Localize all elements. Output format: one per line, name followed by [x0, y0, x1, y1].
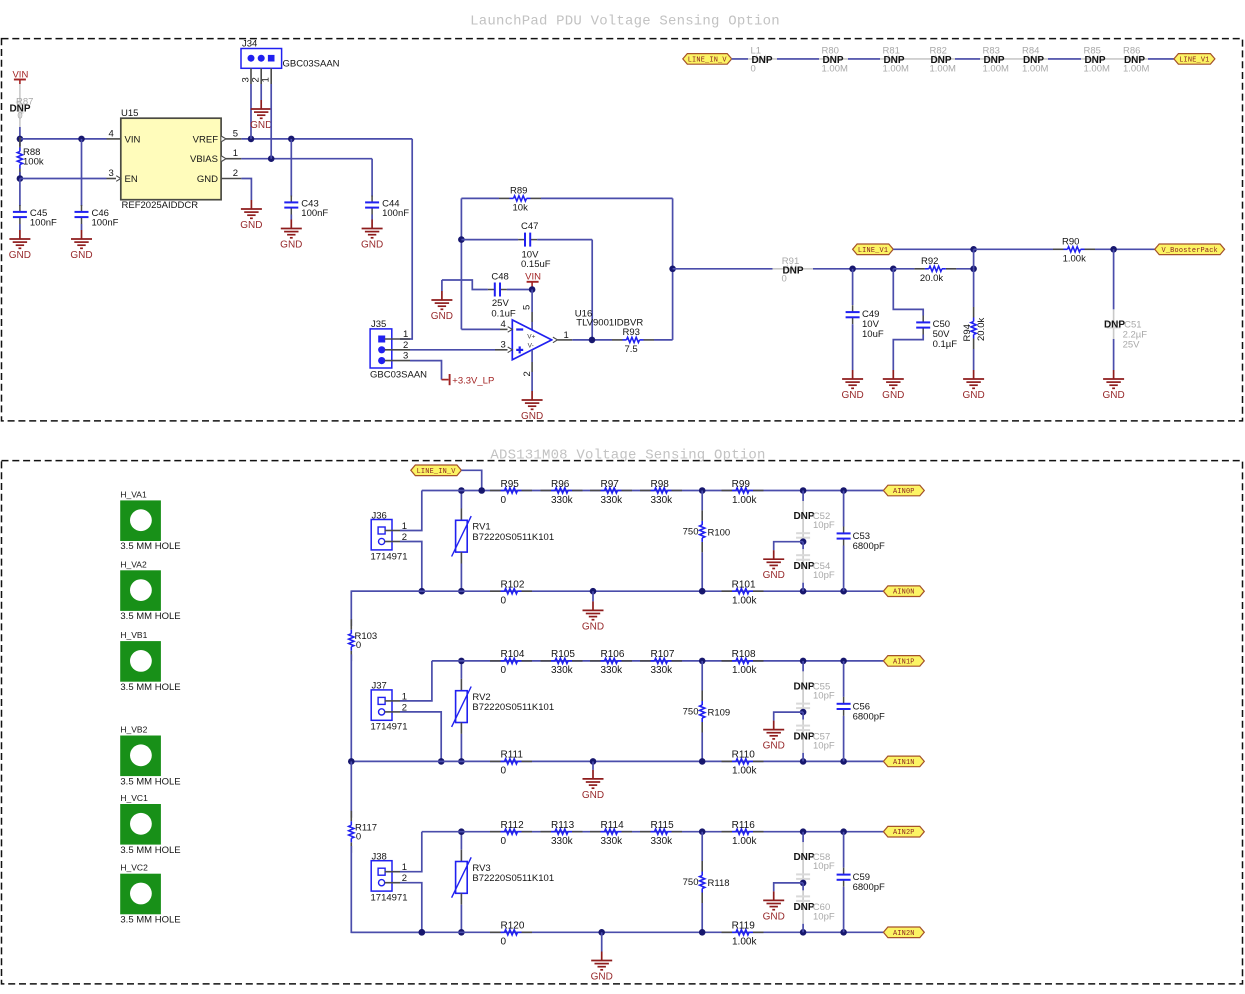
- svg-text:R112: R112: [501, 820, 525, 831]
- top section dashed border: [2, 39, 1243, 421]
- svg-text:3.5 MM HOLE: 3.5 MM HOLE: [120, 845, 180, 856]
- pin 1 (J34) wire to VBIAS: [270, 68, 272, 84]
- node C46 tap: [78, 136, 85, 143]
- svg-text:1: 1: [261, 77, 272, 82]
- capacitor C52 (DNP): [802, 491, 804, 502]
- ground (lower rail): [592, 601, 594, 610]
- wire VIN node: [19, 127, 21, 139]
- svg-text:1.00k: 1.00k: [1063, 253, 1086, 264]
- svg-text:VIN: VIN: [125, 134, 141, 145]
- svg-text:GND: GND: [763, 911, 785, 922]
- svg-text:GND: GND: [197, 174, 218, 185]
- resistor R119 1.00k (lower): [722, 931, 733, 933]
- connector J37 1714971: [371, 690, 392, 720]
- capacitor C53 6800pF: [843, 491, 845, 527]
- svg-text:1.00k: 1.00k: [732, 596, 757, 607]
- svg-text:3: 3: [403, 351, 408, 362]
- svg-text:U15: U15: [121, 108, 138, 119]
- svg-text:H_VC2: H_VC2: [120, 863, 148, 873]
- svg-text:1.00M: 1.00M: [883, 63, 909, 74]
- wire DNP chain: [732, 58, 1174, 60]
- svg-text:LINE_IN_V: LINE_IN_V: [688, 56, 728, 64]
- wire R90 to V_BoosterPack: [1095, 248, 1155, 250]
- svg-text:AIN1P: AIN1P: [893, 658, 915, 666]
- svg-text:AIN1N: AIN1N: [893, 759, 915, 767]
- svg-text:1.00k: 1.00k: [732, 836, 757, 847]
- pin 1 (J38): [385, 871, 400, 873]
- svg-text:3: 3: [109, 168, 114, 179]
- svg-text:3: 3: [501, 339, 506, 350]
- svg-text:GND: GND: [361, 240, 383, 251]
- wire gnd stub: [592, 761, 594, 770]
- svg-text:10pF: 10pF: [813, 570, 835, 581]
- svg-text:750: 750: [683, 526, 699, 537]
- node DNP cap bottom: [800, 758, 807, 765]
- node R92/R94: [970, 266, 977, 273]
- node pin2 J38 / lower rail: [419, 929, 426, 936]
- net label LINE_IN_V (bottom): [411, 465, 462, 476]
- svg-text:GBC03SAAN: GBC03SAAN: [283, 58, 340, 69]
- wire output right vertical: [672, 198, 674, 340]
- svg-text:R114: R114: [601, 820, 625, 831]
- svg-text:330k: 330k: [551, 836, 574, 847]
- node mid DNP caps: [800, 709, 807, 716]
- capacitor C59 6800pF: [843, 832, 845, 868]
- svg-text:0: 0: [501, 495, 507, 506]
- svg-text:R99: R99: [732, 479, 751, 490]
- node C49 tap: [849, 266, 856, 273]
- wire mid gnd branch: [774, 542, 803, 551]
- node op-amp output: [589, 337, 596, 344]
- svg-text:GND: GND: [763, 741, 785, 752]
- capacitor C44 100nF: [371, 159, 373, 197]
- svg-text:0: 0: [501, 596, 507, 607]
- wire C46 to gnd: [81, 224, 83, 230]
- svg-text:H_VA1: H_VA1: [120, 489, 147, 499]
- ground (mid caps): [773, 891, 775, 900]
- svg-text:5: 5: [233, 128, 238, 139]
- net label AIN1P: [883, 656, 924, 667]
- varistor RV1 B72220S0511K101: [460, 491, 462, 509]
- svg-text:4: 4: [109, 128, 114, 139]
- svg-text:R107: R107: [651, 649, 675, 660]
- ground (C50): [892, 370, 894, 379]
- node RV2 bottom: [458, 758, 465, 765]
- wire R93 to right vertical: [654, 339, 673, 341]
- ground (C45): [19, 230, 21, 239]
- svg-text:GND: GND: [9, 250, 31, 261]
- svg-text:20.0k: 20.0k: [920, 273, 943, 284]
- node R divider top: [699, 828, 706, 835]
- inductor L1 (DNP): [756, 56, 769, 61]
- node output to LINE_V branch: [669, 266, 676, 273]
- svg-text:H_VA2: H_VA2: [120, 559, 147, 569]
- connector J34 GBC03SAAN: [241, 49, 282, 69]
- ground (R94): [973, 370, 975, 379]
- resistor R83 (DNP): [988, 56, 1001, 61]
- pin 3 (J34) wire to VREF: [250, 68, 252, 84]
- wire gnd stub: [592, 591, 594, 601]
- svg-text:1.00k: 1.00k: [732, 766, 757, 777]
- svg-text:0: 0: [501, 937, 507, 948]
- pin 2 (J37): [385, 711, 400, 713]
- resistor R99 1.00k (top): [722, 490, 733, 492]
- node lower gnd tap: [590, 758, 597, 765]
- svg-text:R89: R89: [510, 186, 527, 197]
- wire EN node down to C45: [19, 179, 21, 207]
- svg-text:AIN2N: AIN2N: [893, 930, 915, 938]
- ground (C51): [1113, 370, 1115, 379]
- svg-text:GND: GND: [240, 220, 262, 231]
- node big cap top: [840, 658, 847, 665]
- capacitor C55 (DNP): [802, 661, 804, 672]
- svg-text:LINE_IN_V: LINE_IN_V: [417, 468, 457, 476]
- node R divider top: [699, 487, 706, 494]
- resistor R89 10k: [461, 197, 499, 199]
- svg-text:3.5 MM HOLE: 3.5 MM HOLE: [120, 611, 180, 622]
- node mid DNP caps: [800, 880, 807, 887]
- svg-text:330k: 330k: [651, 495, 674, 506]
- capacitor C57 (DNP): [802, 712, 804, 720]
- resistor R87 (DNP): [19, 84, 21, 127]
- svg-text:10k: 10k: [513, 202, 529, 213]
- node DNP cap top: [800, 487, 807, 494]
- ground (mid caps): [773, 550, 775, 559]
- capacitor C48 0.1uF: [442, 280, 488, 290]
- node big cap bottom: [840, 929, 847, 936]
- main rail wire: [422, 831, 884, 833]
- svg-text:GND: GND: [70, 250, 92, 261]
- svg-text:100nF: 100nF: [382, 208, 409, 219]
- pin 3 (U16 +IN): [495, 349, 508, 351]
- wire EN to U15: [20, 178, 107, 180]
- svg-text:6800pF: 6800pF: [853, 711, 885, 722]
- svg-text:R90: R90: [1062, 237, 1079, 248]
- svg-text:R106: R106: [601, 649, 625, 660]
- svg-text:GBC03SAAN: GBC03SAAN: [370, 369, 427, 380]
- svg-text:3.5 MM HOLE: 3.5 MM HOLE: [120, 915, 180, 926]
- resistor R105 330k: [541, 660, 552, 662]
- ground (mid caps): [773, 721, 775, 730]
- node EN/R88: [17, 175, 24, 182]
- svg-text:R98: R98: [651, 479, 670, 490]
- node RV1 top: [458, 487, 465, 494]
- power +3.3V_LP: [449, 374, 451, 385]
- svg-text:1.00M: 1.00M: [1022, 63, 1048, 74]
- svg-text:J37: J37: [372, 681, 387, 692]
- svg-text:R111: R111: [501, 750, 524, 761]
- node DNP cap bottom: [800, 929, 807, 936]
- svg-text:GND: GND: [591, 972, 613, 983]
- svg-text:GND: GND: [582, 621, 604, 632]
- resistor R85 (DNP): [1089, 56, 1102, 61]
- svg-text:1714971: 1714971: [371, 893, 408, 904]
- node DNP cap top: [800, 828, 807, 835]
- svg-text:6800pF: 6800pF: [853, 882, 885, 893]
- wire vertical to R94: [973, 249, 975, 268]
- svg-text:R92: R92: [921, 256, 938, 267]
- pin 2 (J34) wire to gnd: [260, 68, 262, 84]
- ground (lower rail): [601, 952, 603, 961]
- svg-text:R109: R109: [708, 708, 731, 719]
- pin 2 (U16 V-): [531, 350, 533, 362]
- lower rail wire: [351, 590, 883, 592]
- svg-text:REF2025AIDDCR: REF2025AIDDCR: [122, 200, 199, 211]
- svg-text:R120: R120: [501, 921, 525, 932]
- svg-text:0: 0: [356, 640, 361, 651]
- pin 2 (J35) wire to op-amp +: [385, 349, 410, 351]
- net label AIN0N: [883, 586, 924, 597]
- wire VREF net: [241, 138, 412, 140]
- svg-text:GND: GND: [431, 311, 453, 322]
- ground (C48): [441, 291, 443, 300]
- resistor R82 (DNP): [935, 56, 948, 61]
- node big cap bottom: [840, 588, 847, 595]
- node VIN/R88: [17, 136, 24, 143]
- ground (lower rail): [592, 770, 594, 779]
- svg-text:V+: V+: [527, 334, 535, 341]
- net label LINE_V1 (top right): [1174, 54, 1215, 65]
- capacitor C58 (DNP): [802, 832, 804, 843]
- resistor R118 750 (vertical): [701, 832, 703, 861]
- svg-text:1714971: 1714971: [371, 722, 408, 733]
- svg-text:100nF: 100nF: [92, 218, 119, 229]
- svg-text:1.00M: 1.00M: [930, 63, 956, 74]
- svg-text:V-: V-: [528, 343, 534, 350]
- svg-text:VREF: VREF: [193, 134, 219, 145]
- node R divider top: [699, 658, 706, 665]
- svg-text:2: 2: [403, 340, 408, 351]
- IC U15 REF2025AIDDCR: [121, 118, 221, 200]
- node feedback/C47: [458, 236, 465, 243]
- node R divider bottom: [699, 588, 706, 595]
- pin 3 (U15 EN): [107, 178, 117, 180]
- svg-text:R93: R93: [623, 327, 640, 338]
- resistor R97 330k: [590, 490, 601, 492]
- svg-text:GND: GND: [1102, 390, 1124, 401]
- svg-text:0: 0: [356, 831, 361, 842]
- svg-text:DNP: DNP: [793, 561, 814, 572]
- svg-text:2: 2: [522, 371, 533, 376]
- svg-text:GND: GND: [250, 120, 272, 131]
- svg-text:H_VB1: H_VB1: [120, 630, 147, 640]
- svg-text:1.00k: 1.00k: [732, 665, 757, 676]
- resistor R98 330k: [640, 490, 651, 492]
- svg-text:DNP: DNP: [793, 852, 814, 863]
- wire C48 left to gnd: [441, 280, 443, 291]
- svg-text:330k: 330k: [601, 665, 624, 676]
- resistor R113 330k: [541, 831, 552, 833]
- capacitor C54 (DNP): [802, 542, 804, 550]
- svg-text:750: 750: [683, 877, 699, 888]
- svg-text:R94: R94: [962, 324, 973, 341]
- resistor R120 0 (lower): [490, 931, 501, 933]
- resistor R114 330k: [590, 831, 601, 833]
- svg-text:B72220S0511K101: B72220S0511K101: [472, 702, 554, 713]
- ground (J34 pin 2): [260, 100, 262, 109]
- capacitor C51 (DNP): [1113, 249, 1115, 309]
- lower rail wire: [351, 931, 883, 933]
- node pin2 J38 / lower rail C: [419, 929, 426, 936]
- svg-text:LINE_V1: LINE_V1: [1179, 56, 1209, 64]
- net label AIN2N: [883, 927, 924, 938]
- node RV1 bottom: [458, 588, 465, 595]
- svg-text:10pF: 10pF: [813, 911, 835, 922]
- node C50 tap: [890, 266, 897, 273]
- ground (C43): [290, 220, 292, 229]
- resistor R108 1.00k (top): [722, 660, 733, 662]
- resistor R86 (DNP): [1128, 56, 1141, 61]
- svg-text:1: 1: [233, 148, 238, 159]
- pin 2 (U15 GND): [221, 178, 241, 180]
- resistor R80 (DNP): [827, 56, 840, 61]
- svg-text:0: 0: [501, 665, 507, 676]
- node RV2 top: [458, 658, 465, 665]
- resistor R93 7.5: [612, 339, 623, 341]
- svg-text:R113: R113: [551, 820, 575, 831]
- pin 4 (U16 -IN): [461, 328, 500, 330]
- svg-text:20.0k: 20.0k: [976, 318, 987, 341]
- svg-text:DNP: DNP: [793, 511, 814, 522]
- resistor R81 (DNP): [888, 56, 901, 61]
- svg-text:R115: R115: [651, 820, 675, 831]
- svg-text:0.1µF: 0.1µF: [933, 339, 958, 350]
- svg-text:DNP: DNP: [793, 681, 814, 692]
- wire C45 to gnd: [19, 224, 21, 230]
- svg-text:R119: R119: [732, 921, 756, 932]
- node C43 tap: [288, 136, 295, 143]
- svg-text:3.5 MM HOLE: 3.5 MM HOLE: [120, 776, 180, 787]
- svg-text:R96: R96: [551, 479, 570, 490]
- node RV3 top: [458, 828, 465, 835]
- node lower gnd tap: [598, 929, 605, 936]
- svg-text:GND: GND: [962, 390, 984, 401]
- resistor R101 1.00k (lower): [722, 590, 733, 592]
- pin 1 (J36): [385, 530, 400, 532]
- svg-text:+3.3V_LP: +3.3V_LP: [452, 375, 494, 386]
- resistor R103 0 (left vertical): [351, 591, 422, 626]
- node RV3 bottom: [458, 929, 465, 936]
- op-amp U16 TLV9001IDBVR: [512, 320, 551, 360]
- node LINE_IN_V drop: [478, 487, 485, 494]
- svg-text:330k: 330k: [601, 495, 624, 506]
- svg-text:7.5: 7.5: [625, 344, 638, 355]
- node J34 pin3 / VREF: [248, 136, 255, 143]
- svg-text:10uF: 10uF: [862, 329, 884, 340]
- svg-text:R116: R116: [732, 820, 756, 831]
- resistor R111 0 (lower): [490, 760, 501, 762]
- node R103 / lower rail B: [348, 758, 355, 765]
- svg-text:AIN0P: AIN0P: [893, 488, 915, 496]
- wire R88 to EN node: [19, 172, 21, 179]
- svg-text:330k: 330k: [651, 836, 674, 847]
- node big cap bottom: [840, 758, 847, 765]
- svg-text:10pF: 10pF: [813, 690, 835, 701]
- pin 3 (J35) wire to +3.3V_LP: [385, 360, 410, 362]
- svg-text:1: 1: [564, 330, 569, 341]
- svg-text:330k: 330k: [601, 836, 624, 847]
- node DNP cap bottom: [800, 588, 807, 595]
- svg-text:R118: R118: [708, 878, 730, 889]
- pin 2 (J38): [385, 882, 400, 884]
- svg-text:5: 5: [522, 305, 533, 310]
- svg-text:B72220S0511K101: B72220S0511K101: [472, 532, 554, 543]
- pin 1 (J37): [385, 700, 400, 702]
- wire feedback left vertical: [460, 198, 462, 329]
- bottom section dashed border: [2, 461, 1243, 984]
- svg-text:0: 0: [17, 110, 22, 121]
- resistor R109 750 (vertical): [701, 661, 703, 691]
- ground (U15 pin 2): [250, 200, 252, 209]
- svg-text:GND: GND: [521, 411, 543, 422]
- wire VREF down to J35 pin 1: [400, 139, 412, 339]
- svg-text:2: 2: [233, 168, 238, 179]
- svg-text:3.5 MM HOLE: 3.5 MM HOLE: [120, 682, 180, 693]
- wire C47 to output node: [537, 239, 592, 241]
- svg-text:1.00k: 1.00k: [732, 495, 757, 506]
- net label V_BoosterPack: [1155, 244, 1225, 255]
- main rail wire: [422, 490, 884, 492]
- node DNP cap top: [800, 658, 807, 665]
- svg-text:C47: C47: [521, 221, 538, 232]
- node pin2 J37 / lower rail: [438, 758, 445, 765]
- pin 4 (U15 VIN): [107, 138, 121, 140]
- svg-text:J38: J38: [372, 852, 387, 863]
- svg-text:DNP: DNP: [793, 902, 814, 913]
- svg-text:R108: R108: [732, 649, 756, 660]
- ground (C46): [81, 230, 83, 239]
- svg-text:AIN0N: AIN0N: [893, 589, 915, 597]
- ground (U16 pin 2): [531, 391, 533, 400]
- svg-text:0.1uF: 0.1uF: [491, 308, 515, 319]
- svg-text:GND: GND: [582, 790, 604, 801]
- wire VBIAS net: [241, 158, 372, 160]
- resistor R95 0: [490, 490, 501, 492]
- svg-text:R97: R97: [601, 479, 620, 490]
- wire top line to R90: [974, 248, 1053, 250]
- resistor R91 (DNP): [773, 268, 814, 270]
- svg-text:330k: 330k: [551, 495, 574, 506]
- svg-text:EN: EN: [125, 174, 138, 185]
- svg-text:GND: GND: [841, 390, 863, 401]
- wire to U15 VIN pin: [20, 138, 107, 140]
- resistor R110 1.00k (lower): [722, 760, 733, 762]
- resistor R90 1.00k: [1053, 248, 1064, 250]
- capacitor C43 100nF: [290, 139, 292, 197]
- resistor R102 0 (lower): [490, 590, 501, 592]
- resistor R116 1.00k (top): [722, 831, 733, 833]
- net label AIN0P: [883, 485, 924, 496]
- resistor R107 330k: [640, 660, 651, 662]
- capacitor C56 6800pF: [843, 661, 845, 697]
- svg-text:R102: R102: [501, 580, 525, 591]
- wire U15 GND pin to ground: [241, 179, 251, 201]
- svg-text:H_VC1: H_VC1: [120, 793, 148, 803]
- svg-text:V_BoosterPack: V_BoosterPack: [1162, 247, 1218, 255]
- wire gnd stub: [601, 932, 603, 951]
- svg-text:GND: GND: [280, 240, 302, 251]
- net label LINE_IN_V (top): [683, 54, 732, 65]
- pin 2 (J36): [385, 541, 400, 543]
- svg-text:100k: 100k: [23, 157, 44, 168]
- svg-text:25V: 25V: [1123, 340, 1141, 351]
- node pin2 J36 / lower rail: [419, 588, 426, 595]
- svg-text:J36: J36: [372, 510, 387, 521]
- svg-text:0.15uF: 0.15uF: [521, 259, 551, 270]
- svg-text:1.00M: 1.00M: [1123, 63, 1149, 74]
- svg-text:1.00M: 1.00M: [1084, 63, 1110, 74]
- svg-text:0: 0: [501, 766, 507, 777]
